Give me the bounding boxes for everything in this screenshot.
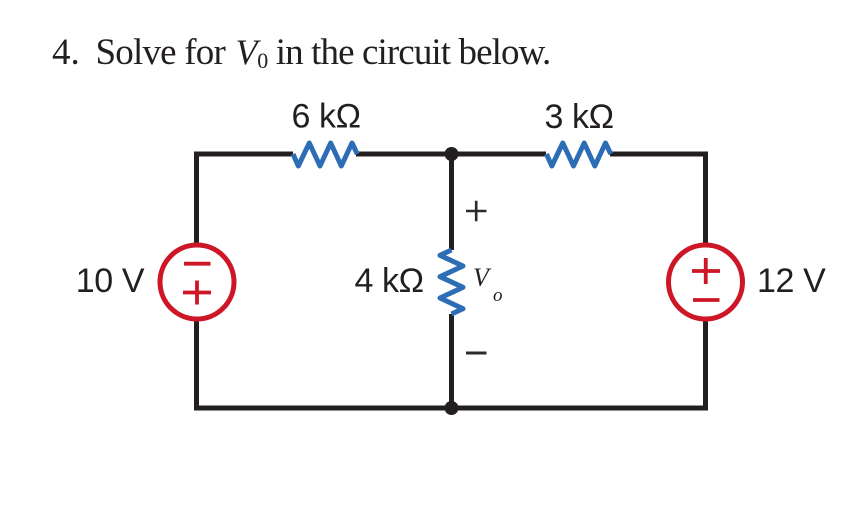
voltage source 10 V (circle) <box>160 245 234 319</box>
polarity minus of 10 V source <box>184 262 211 266</box>
polarity minus of 12 V source <box>693 298 720 302</box>
node: junction dot top <box>445 147 459 161</box>
svg-text:0: 0 <box>257 48 268 73</box>
title: problem statement text <box>52 32 550 73</box>
polarity + of Vo <box>466 201 487 221</box>
resistor 6 kOhm (zigzag) <box>293 143 357 166</box>
wire: right side, above 12 V source <box>703 152 708 247</box>
svg-text:o: o <box>493 285 503 306</box>
svg-text:6 kΩ: 6 kΩ <box>292 98 361 136</box>
wire: bottom side <box>194 406 708 411</box>
polarity plus of 12 V source <box>692 258 720 284</box>
wire: top side, middle segment <box>356 152 546 157</box>
label 6 kOhm <box>292 98 361 136</box>
svg-text:10 V: 10 V <box>76 262 145 300</box>
wire: left side, above 10 V source <box>194 152 199 246</box>
label 3 kOhm <box>545 98 614 136</box>
wire: right side, below 12 V source <box>703 318 708 411</box>
label 4 kOhm <box>355 262 424 300</box>
wire: top side, left segment <box>194 152 293 157</box>
node: junction dot bottom <box>445 401 459 415</box>
resistor 3 kOhm (zigzag) <box>547 143 611 166</box>
wire: middle branch, below 4 kOhm resistor <box>449 314 454 408</box>
wire: left side, below 10 V source <box>194 319 199 411</box>
svg-text:Solve for: Solve for <box>96 32 226 73</box>
wire: top side, right segment <box>610 152 708 157</box>
polarity - of Vo <box>466 352 487 355</box>
wire: middle branch, above 4 kOhm resistor <box>449 154 454 250</box>
label 12 V <box>757 262 826 300</box>
polarity plus of 10 V source <box>183 281 211 305</box>
label Vo <box>473 263 503 306</box>
svg-text:3 kΩ: 3 kΩ <box>545 98 614 136</box>
svg-text:12 V: 12 V <box>757 262 826 300</box>
svg-text:4.: 4. <box>52 32 80 73</box>
voltage source 12 V (circle) <box>669 245 743 319</box>
label 10 V <box>76 262 145 300</box>
svg-text:4 kΩ: 4 kΩ <box>355 262 424 300</box>
resistor 4 kOhm (vertical zigzag) <box>440 250 463 314</box>
svg-text:in the circuit below.: in the circuit below. <box>276 32 551 73</box>
